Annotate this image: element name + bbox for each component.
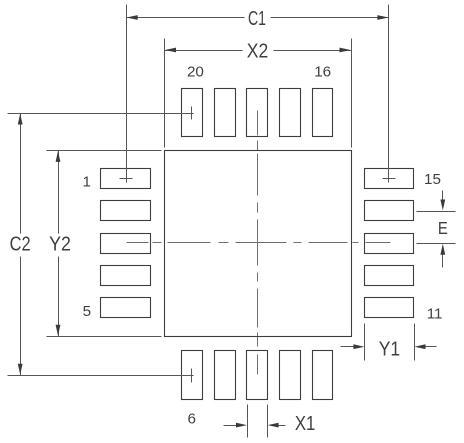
pad 6 center cross tick (191, 369, 193, 383)
pad 17 (280, 89, 301, 137)
pad 5 (101, 298, 151, 318)
pad 1 center cross bar (120, 178, 133, 180)
pad 15 (365, 169, 414, 189)
arrow Y2 bottom (56, 325, 61, 336)
svg-text:6: 6 (187, 411, 195, 428)
pad 3 (101, 234, 151, 254)
pad 8 (247, 351, 268, 400)
pad 9 (280, 351, 301, 400)
svg-text:Y2: Y2 (49, 234, 71, 256)
dimension C1 extension line left (to pad 1 center cross) (126, 5, 128, 183)
arrow Y1 right-pointing (353, 344, 364, 349)
pad 1 (101, 169, 151, 189)
svg-text:11: 11 (427, 305, 443, 322)
arrow X2 left (165, 48, 176, 53)
arrow X2 right (340, 48, 351, 53)
pad 16 (313, 89, 333, 137)
svg-text:5: 5 (83, 303, 91, 320)
arrow C2 top (18, 114, 23, 125)
dimension X2 line (165, 50, 243, 52)
dimension Y1 extension line left (364, 324, 366, 361)
pad 20 (182, 89, 203, 137)
dimension C2 line (20, 114, 22, 234)
svg-text:E: E (438, 218, 448, 238)
dimension Y1 arrow shaft right (420, 346, 437, 348)
pad 19 (215, 89, 236, 137)
dimension Y1 extension line right (414, 324, 416, 361)
dimension C1 line (127, 17, 245, 19)
svg-text:Y1: Y1 (379, 339, 400, 361)
svg-text:C1: C1 (248, 8, 266, 30)
dimension Y2 extension line bottom (47, 336, 162, 338)
dimension Y1 arrow shaft left (341, 346, 361, 348)
dimension Y2 line (58, 151, 60, 234)
dimension Y2 extension line top (47, 150, 162, 152)
svg-text:X1: X1 (295, 413, 316, 435)
dimension X1 extension line right (267, 405, 269, 438)
pad 4 (101, 266, 151, 286)
arrow Y1 left-pointing (415, 344, 426, 349)
pad 10 (313, 351, 333, 400)
pad 20 center cross tick (191, 107, 193, 120)
svg-text:16: 16 (314, 64, 331, 81)
dimension X1 arrow shaft right (272, 425, 286, 427)
package body outline (165, 151, 352, 337)
pad 6 (182, 351, 203, 400)
dimension X2 extension line right (351, 39, 353, 148)
svg-text:20: 20 (187, 64, 204, 81)
dimension C1 extension line right (to pad 15 center cross) (388, 5, 390, 183)
pad 15 center cross bar (383, 178, 396, 180)
dimension E extension line bottom (pad 13 center) (417, 243, 456, 245)
arrow C2 bottom (18, 364, 23, 375)
dimension X1 arrow shaft left (224, 425, 244, 427)
dimension E arrow shaft top (442, 191, 444, 207)
arrow C1 left (127, 15, 138, 20)
dimension C2 extension line top (to pad 20 center cross) (8, 113, 194, 115)
pad 18 (247, 89, 268, 137)
svg-text:C2: C2 (10, 234, 31, 256)
dimension X2 extension line left (164, 39, 166, 148)
dimension E arrow shaft bottom (442, 249, 444, 268)
arrow E up (440, 244, 445, 255)
vertical center line (257, 111, 259, 375)
arrow E down (440, 200, 445, 211)
arrow Y2 top (56, 151, 61, 162)
pad 13 (365, 234, 414, 254)
arrow X1 left-pointing (268, 423, 279, 428)
pad 12 (365, 266, 414, 286)
svg-text:15: 15 (424, 171, 441, 188)
dimension X1 extension line left (247, 405, 249, 438)
horizontal center line (127, 242, 391, 244)
arrow C1 right (377, 15, 388, 20)
pad 14 (365, 201, 414, 221)
pad 2 (101, 201, 151, 221)
pad 11 (365, 298, 414, 318)
svg-text:X2: X2 (247, 41, 269, 63)
arrow X1 right-pointing (236, 423, 247, 428)
svg-text:1: 1 (82, 174, 90, 191)
pad 7 (215, 351, 236, 400)
dimension E extension line top (pad 14 center) (417, 211, 456, 213)
dimension C2 extension line bottom (to pad 6 center cross) (8, 375, 194, 377)
